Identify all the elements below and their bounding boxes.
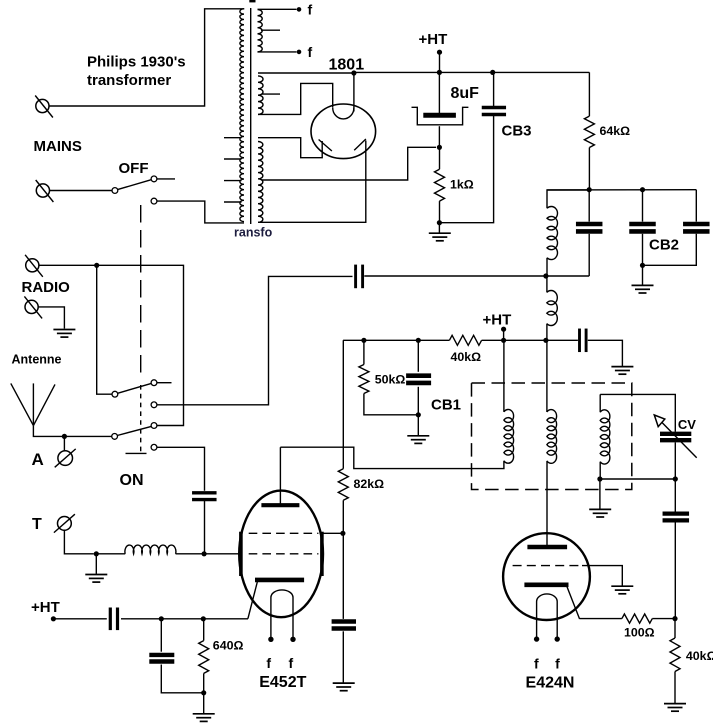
wire mains terminal 2 to switch pole xyxy=(50,190,112,192)
svg-text:CV: CV xyxy=(678,417,696,432)
mains terminal 2 xyxy=(36,184,49,197)
node dot +HT/coil feed xyxy=(501,338,506,343)
wire cathode to 100R xyxy=(580,618,622,620)
ground symbol C13 xyxy=(333,682,355,684)
svg-text:CB1: CB1 xyxy=(431,397,461,414)
node dot 640 bottom xyxy=(201,690,206,695)
pin dot f1 E424N xyxy=(534,636,539,641)
pin dot f1 E452T xyxy=(268,637,273,642)
wire L4 bottom to E424N anode xyxy=(546,461,548,546)
node dot L1/L2 junction xyxy=(543,273,548,278)
wire radio terminal 2 to ground xyxy=(38,307,65,329)
inductor L3 xyxy=(504,409,514,463)
tube V2 E424N envelope xyxy=(503,533,590,620)
svg-text:640Ω: 640Ω xyxy=(213,639,244,653)
tube V2 filament xyxy=(537,594,558,602)
transformer label mark (cropped text above core) xyxy=(249,0,255,2)
svg-text:f: f xyxy=(308,44,313,60)
wire secondary S2 bottom to rectifier filament left xyxy=(258,83,333,114)
node dot CB2 bottom xyxy=(640,263,645,268)
secondary S1 center tap stub xyxy=(261,29,280,31)
capacitor C4 CB2 left xyxy=(642,190,644,222)
capacitor C11 (HT feed) xyxy=(109,608,112,631)
svg-text:+HT: +HT xyxy=(31,599,60,616)
terminal dot f lower xyxy=(297,50,302,55)
wire CB3 capacitor top lead xyxy=(493,72,495,106)
node dot antenna/A-terminal xyxy=(62,434,67,439)
tube V1 anode plate xyxy=(261,503,299,507)
svg-text:+HT: +HT xyxy=(419,31,448,48)
svg-text:64kΩ: 64kΩ xyxy=(600,124,631,138)
wire T terminal down to line xyxy=(64,530,93,554)
svg-text:Philips 1930's: Philips 1930's xyxy=(87,54,186,71)
wire A terminal lead xyxy=(63,436,65,450)
wire L4 top lead xyxy=(546,340,548,412)
ground symbol bottom-left xyxy=(203,693,205,713)
svg-text:1kΩ: 1kΩ xyxy=(450,178,474,192)
switch linkage dashed line upper xyxy=(140,205,142,377)
terminal A xyxy=(58,451,73,466)
node dot radio wire xyxy=(94,263,99,268)
tube V1 cathode bar xyxy=(255,578,304,583)
switch S1b contact stub xyxy=(151,380,157,386)
node dot CV bottom xyxy=(673,476,678,481)
svg-text:transformer: transformer xyxy=(87,72,171,89)
capacitor C5 CB2 right xyxy=(695,190,697,222)
wire 40k to +HT node xyxy=(482,339,547,341)
inductor L4 xyxy=(547,410,557,464)
node dot detector rail mid xyxy=(640,187,645,192)
svg-text:RADIO: RADIO xyxy=(22,279,71,296)
wire signal line y276 xyxy=(364,275,589,277)
node dot grid-cap junction xyxy=(202,551,207,556)
node dot HT rail at 8uF xyxy=(437,70,442,75)
resistor R4 50k xyxy=(363,340,365,364)
tube V2 anode plate xyxy=(527,545,567,549)
transformer primary winding xyxy=(240,9,244,222)
resistor R8 40k bottom xyxy=(674,619,676,638)
switch contact radio-feed xyxy=(151,402,157,408)
capacitor C9 (output top) xyxy=(674,479,676,512)
switch S1b blade xyxy=(118,383,152,393)
wire detector rail xyxy=(547,189,696,191)
tube V2 cathode bar xyxy=(524,582,568,587)
svg-text:ON: ON xyxy=(120,472,144,489)
svg-text:ransfo: ransfo xyxy=(234,226,273,240)
svg-text:40kΩ: 40kΩ xyxy=(451,350,482,364)
resistor R6 82k xyxy=(338,469,348,501)
wire antenna to switch pole xyxy=(33,426,111,437)
wire 100R to node xyxy=(652,618,675,620)
capacitor C2 CB3 xyxy=(482,106,506,109)
wire E452T cathode diagonal xyxy=(248,582,257,619)
wire HT rail (y=72) to +HT and CB3 and 64k xyxy=(354,71,589,73)
wire 8uF top lead xyxy=(438,72,440,113)
capacitor C7 antenna coupling xyxy=(354,265,357,289)
tube V2 grid dashes xyxy=(513,565,582,567)
wire 82k bottom to grid node xyxy=(342,500,344,533)
wire switch S1a to primary bottom xyxy=(157,201,244,223)
rectifier U1 right anode plate xyxy=(354,139,366,150)
wire V2 grid to ground xyxy=(582,566,622,586)
switch contact to radio column xyxy=(151,423,157,429)
wire +HT rail corner to 82k xyxy=(342,340,344,468)
pin dot f2 E452T xyxy=(290,637,295,642)
wire secondary S2 top to HT rail xyxy=(258,72,354,74)
wire secondary S1 bottom to f terminal xyxy=(258,51,297,53)
node dot detector rail left xyxy=(587,187,592,192)
antenna symbol xyxy=(11,383,34,425)
svg-text:+HT: +HT xyxy=(483,312,512,329)
node dot cathode bias xyxy=(672,616,677,621)
wire detector rail to L1 xyxy=(547,190,589,208)
node dot CB1 bottom xyxy=(416,412,421,417)
pin dot f2 E424N xyxy=(555,636,560,641)
inductor L2 xyxy=(547,291,558,326)
wire 1801 node to filament xyxy=(353,73,355,112)
svg-text:CB3: CB3 xyxy=(502,123,532,140)
wire L5 bottom to ground rail xyxy=(599,462,601,479)
resistor R2 64k xyxy=(584,116,594,147)
wire radio terminal to switch column xyxy=(39,265,184,425)
switch linkage dashed line lower xyxy=(140,385,142,452)
node dot 8uF bottom / 1k top xyxy=(437,145,442,150)
capacitor C1 8uF electrolytic plate xyxy=(423,113,456,118)
wire primary top lead to mains terminal xyxy=(49,9,244,106)
wire radio node down to switch pole xyxy=(97,265,112,394)
ground symbol bottom-right xyxy=(664,703,686,705)
inductor L6 (horizontal choke) xyxy=(125,545,176,554)
svg-text:82kΩ: 82kΩ xyxy=(354,477,385,491)
rectifier U1 left anode plate xyxy=(319,140,332,152)
+HT terminal mid xyxy=(501,327,506,332)
+HT terminal bottom xyxy=(51,616,56,621)
tube V1 filament xyxy=(271,590,293,598)
inductor L1 xyxy=(547,207,557,260)
wire secondary S3 bottom to rectifier right anode xyxy=(258,141,366,223)
wire L1 bottom to node xyxy=(546,258,548,276)
svg-text:MAINS: MAINS xyxy=(34,138,82,155)
ground symbol CB1 xyxy=(417,415,419,435)
node dot 640 top xyxy=(201,616,206,621)
node 1801 anode-rail dot xyxy=(351,70,356,75)
resistor R7 100 xyxy=(622,614,652,623)
switch S1a contact lower xyxy=(151,198,157,204)
svg-text:OFF: OFF xyxy=(119,160,149,177)
tube V1 E452T envelope xyxy=(239,491,323,618)
variable capacitor CV plates xyxy=(660,432,691,436)
svg-text:50kΩ: 50kΩ xyxy=(375,373,406,387)
node dot bypass cap xyxy=(159,616,164,621)
svg-text:Antenne: Antenne xyxy=(12,353,62,367)
node dot 1k bottom xyxy=(437,220,442,225)
wire L3 bottom to E452T anode line xyxy=(280,447,504,468)
ground symbol T line xyxy=(95,554,97,574)
ground symbol main B- xyxy=(438,224,440,233)
terminal T xyxy=(58,517,72,531)
wire 50k bottom to CB1 node xyxy=(364,394,418,415)
node dot L5 bottom xyxy=(597,476,602,481)
wire HT rail down to 64k xyxy=(588,72,590,116)
svg-text:T: T xyxy=(32,516,42,533)
dashed coupling unit box xyxy=(472,383,632,490)
wire L5/CV common xyxy=(600,478,675,480)
switch linkage end bar xyxy=(126,452,147,454)
tube V1 right grid bar xyxy=(320,532,324,576)
capacitor C12 bypass xyxy=(160,619,162,652)
svg-text:f: f xyxy=(555,656,560,672)
inductor L5 xyxy=(600,410,610,464)
ground symbol L5 xyxy=(599,479,601,509)
switch S1a OFF pole xyxy=(112,188,118,194)
wire switch contact to coupling cap xyxy=(157,276,353,404)
secondary S2 center tap stub xyxy=(262,93,281,95)
wire CB3 bottom to 1k bottom xyxy=(441,116,494,223)
svg-text:f: f xyxy=(266,655,271,671)
transformer secondary winding S2 (rectifier filament) xyxy=(258,76,263,115)
tube V1 grid 1 dashes xyxy=(249,532,319,534)
wire L2 bottom to node xyxy=(546,324,548,341)
switch S1c blade xyxy=(117,426,151,435)
RADIO terminal 1 xyxy=(26,259,39,272)
rectifier U1 filament (cathode) arc xyxy=(333,108,354,119)
node dot grid-leak junction xyxy=(340,531,345,536)
node dot HT rail at CB3 xyxy=(490,70,495,75)
wire 1k bottom to ground node xyxy=(439,201,441,223)
wire C11 to cathode diagonal xyxy=(121,618,248,620)
wire CV bottom xyxy=(674,442,676,479)
resistor R3 40k xyxy=(449,335,481,345)
resistor R1 1k xyxy=(435,169,445,201)
svg-text:f: f xyxy=(288,655,293,671)
capacitor C6 coupling (grid E424N) xyxy=(547,339,578,341)
capacitor C1 8uF electrolytic can xyxy=(412,107,469,125)
wire switch to grid capacitor xyxy=(157,447,205,491)
transformer secondary winding S1 (filament f-f) xyxy=(258,10,263,52)
tube V1 left grid bar xyxy=(239,532,243,576)
svg-text:100Ω: 100Ω xyxy=(624,626,655,640)
transformer T1 core xyxy=(250,8,252,224)
svg-text:8uF: 8uF xyxy=(451,85,480,102)
svg-text:E424N: E424N xyxy=(526,675,575,692)
wire 40k to ground xyxy=(674,672,676,704)
wire V2 cathode diagonal xyxy=(567,587,580,619)
wire +HT to cap C11 xyxy=(53,618,106,620)
switch S1b pole xyxy=(112,391,118,397)
variable capacitor CV arrow xyxy=(662,423,697,458)
wire +HT mid rail xyxy=(343,339,449,341)
capacitor C3 (on 64k leg) xyxy=(588,190,590,222)
wire +HT to L3 xyxy=(503,340,505,412)
svg-text:1801: 1801 xyxy=(329,57,365,74)
node dot L2 bottom / +HT feed xyxy=(543,338,548,343)
wire V1 right grid bar to node xyxy=(324,532,344,534)
ground symbol CB2 xyxy=(642,267,644,285)
resistor R5 640 xyxy=(203,619,205,641)
ground symbol V2 grid xyxy=(611,585,633,587)
capacitor C10 grid coupling xyxy=(192,491,217,494)
capacitor C13 grid bypass xyxy=(342,533,344,619)
node dot CB1 cap top xyxy=(416,338,421,343)
switch S1a contact upper (open stub) xyxy=(151,176,157,182)
transformer primary taps xyxy=(224,137,242,139)
svg-text:f: f xyxy=(308,2,313,18)
switch S1a blade xyxy=(118,180,152,190)
svg-text:E452T: E452T xyxy=(259,674,306,691)
node dot T line xyxy=(94,551,99,556)
wire E452T anode lead xyxy=(279,447,281,504)
node dot 50k top xyxy=(361,338,366,343)
+HT terminal top xyxy=(437,50,442,55)
ground symbol radio xyxy=(53,329,75,331)
wire choke to node xyxy=(176,553,202,555)
mains terminal 1 xyxy=(36,99,49,112)
wire 8uF bottom lead xyxy=(438,126,440,147)
RADIO terminal 2 xyxy=(25,300,38,313)
svg-text:A: A xyxy=(32,450,44,469)
svg-text:40kΩ: 40kΩ xyxy=(686,649,713,663)
wire 640 bottom xyxy=(203,673,205,692)
wire node to E452T grid bar xyxy=(204,553,238,555)
tube V1 grid 2 dashes xyxy=(249,553,319,555)
wire secondary S3 center tap to 1k/8uF junction xyxy=(262,147,437,180)
transformer secondary winding S3 (HT winding) xyxy=(258,142,263,223)
wire secondary S3 top to rectifier left anode xyxy=(258,138,322,158)
switch contact lower (to grid cap) xyxy=(151,444,157,450)
svg-text:CB2: CB2 xyxy=(649,237,679,254)
terminal dot f upper xyxy=(297,7,302,12)
svg-text:f: f xyxy=(534,656,539,672)
ground symbol C6 xyxy=(611,366,633,368)
wire T line to choke xyxy=(96,553,125,555)
wire secondary S1 top to f terminal xyxy=(258,8,297,10)
wire 64k bottom to node xyxy=(588,148,590,190)
rectifier tube U1 1801 envelope xyxy=(311,104,376,159)
wire L5 top to CV top xyxy=(600,394,675,431)
switch S1c pole xyxy=(112,434,118,440)
capacitor C8 CB1 xyxy=(417,340,419,372)
